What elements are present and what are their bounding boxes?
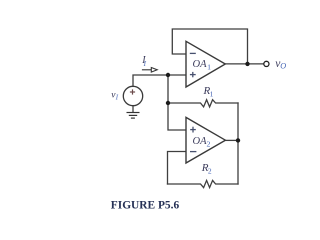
svg-text:FIGURE P5.6: FIGURE P5.6 [111, 199, 180, 211]
